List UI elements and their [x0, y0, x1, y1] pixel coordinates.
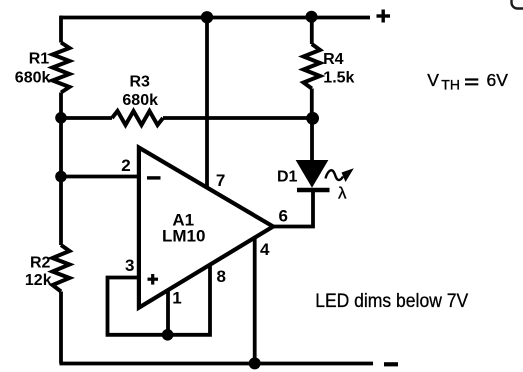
svg-text:D1: D1	[277, 169, 298, 186]
node: + supply terminal	[377, 10, 391, 23]
wire: top supply rail	[60, 16, 370, 20]
svg-text:8: 8	[217, 267, 226, 286]
svg-text:V: V	[427, 70, 439, 90]
wire: left vertical rail top segment	[59, 16, 63, 43]
wire: pin 1 wire	[166, 290, 170, 335]
diode D1 cathode bar	[297, 188, 330, 192]
resistor R4	[304, 44, 321, 89]
annotation VTH = 6V	[427, 70, 508, 93]
svg-text:LED dims below 7V: LED dims below 7V	[315, 290, 468, 312]
label R1 680k	[15, 51, 51, 87]
wire: pin 2 input wire	[61, 175, 139, 179]
label R4 1.5k	[323, 51, 354, 87]
node: junction top rail / R4	[306, 11, 318, 23]
svg-text:2: 2	[121, 156, 130, 175]
label R3 680k	[122, 74, 158, 110]
resistor R3	[112, 111, 163, 125]
wire: pin 3 feedback loop	[108, 265, 211, 335]
svg-text:1: 1	[172, 289, 181, 308]
node: junction top center	[201, 11, 213, 23]
svg-text:R3: R3	[130, 74, 151, 91]
wire: pin 6 output wire	[273, 191, 313, 227]
svg-text:λ: λ	[338, 184, 347, 203]
node: junction bottom rail / pin 4	[249, 357, 261, 369]
svg-text:R4: R4	[323, 51, 344, 68]
svg-text:680k: 680k	[122, 92, 158, 109]
node: junction left / R3	[55, 112, 67, 124]
svg-text:7: 7	[216, 171, 225, 190]
node: junction feedback / pin 1	[162, 329, 174, 341]
resistor R2	[53, 245, 70, 292]
svg-text:1.5k: 1.5k	[323, 70, 354, 87]
label A1 LM10	[162, 211, 205, 246]
wire: R4 bottom segment	[310, 89, 314, 119]
svg-text:4: 4	[260, 240, 270, 259]
svg-text:12k: 12k	[25, 272, 52, 289]
wire: LED anode wire	[310, 118, 314, 161]
svg-text:6V: 6V	[487, 70, 509, 90]
wire: left vertical rail middle segment	[59, 93, 63, 246]
node: junction R3 / R4 / LED	[306, 112, 319, 125]
wire: R4 top segment	[310, 17, 314, 44]
op-amp A1 LM10 triangle	[139, 148, 273, 308]
svg-text:R2: R2	[30, 254, 51, 271]
svg-text:3: 3	[125, 256, 134, 275]
wire: left vertical rail bottom segment	[59, 292, 63, 364]
wire: pin 7 supply wire	[205, 18, 209, 188]
svg-text:680k: 680k	[15, 69, 51, 86]
wire: bottom rail	[60, 362, 374, 366]
svg-text:LM10: LM10	[162, 227, 205, 246]
svg-text:TH: TH	[441, 76, 460, 92]
resistor R1	[53, 43, 70, 93]
diode D1 LED triangle	[297, 161, 328, 187]
decorative rounded corner box top-right	[512, 0, 523, 9]
LED light emission squiggle arrow	[326, 168, 354, 182]
svg-text:R1: R1	[29, 51, 50, 68]
svg-text:6: 6	[279, 207, 288, 226]
label R2 12k	[25, 254, 52, 289]
op-amp non-inverting input plus symbol	[148, 274, 159, 285]
wire: R3 branch left segment	[61, 116, 112, 120]
op-amp inverting input minus symbol	[147, 176, 161, 179]
wire: R3 branch right segment	[163, 116, 313, 120]
node: junction left / pin 2	[55, 171, 67, 183]
wire: pin 4 wire	[253, 238, 257, 364]
node: - supply terminal	[384, 362, 398, 366]
